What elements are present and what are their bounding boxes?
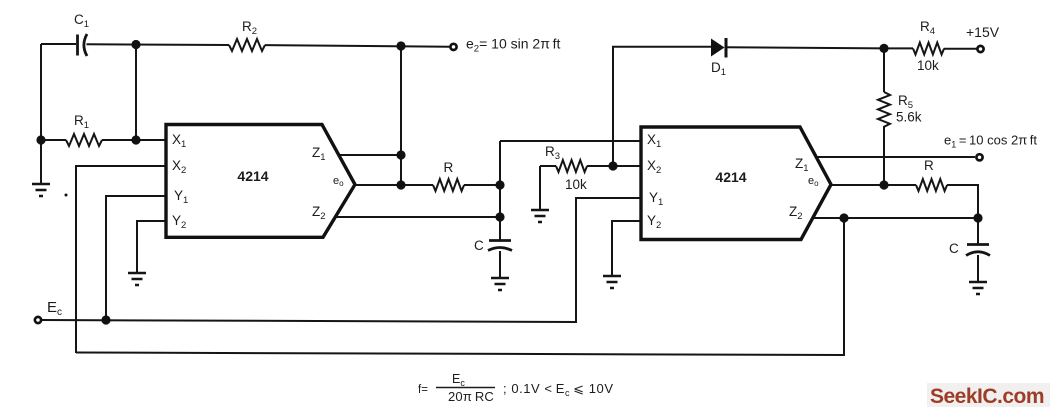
- svg-text:10k: 10k: [565, 177, 587, 192]
- svg-text:e1 = 10 cos 2π ft: e1 = 10 cos 2π ft: [944, 133, 1037, 150]
- svg-text:C: C: [474, 238, 484, 253]
- svg-text:10k: 10k: [917, 58, 939, 73]
- svg-text:SeekIC.com: SeekIC.com: [930, 385, 1044, 408]
- svg-text:R: R: [924, 158, 934, 173]
- svg-text:R: R: [444, 160, 454, 175]
- svg-text:C: C: [949, 241, 959, 256]
- svg-text:4214: 4214: [237, 168, 268, 184]
- svg-text:+15V: +15V: [966, 24, 1000, 40]
- svg-text:4214: 4214: [715, 169, 746, 185]
- svg-text:; 0.1V < Ec ⩽ 10V: ; 0.1V < Ec ⩽ 10V: [503, 381, 614, 398]
- svg-text:f=: f=: [418, 384, 428, 396]
- svg-text:20π RC: 20π RC: [448, 389, 494, 404]
- svg-text:5.6k: 5.6k: [896, 110, 922, 125]
